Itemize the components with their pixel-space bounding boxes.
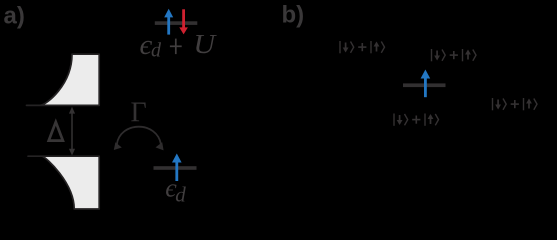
red down spin arrow on upper level xyxy=(179,9,188,34)
svg-text:Γ: Γ xyxy=(131,98,147,129)
blue up spin arrow in (b) xyxy=(421,70,431,98)
Delta label xyxy=(49,122,63,141)
BCS DOS upper band (white) xyxy=(27,54,100,105)
state label bottom xyxy=(394,114,439,126)
svg-text:a): a) xyxy=(4,3,25,30)
label eps_d lower xyxy=(165,173,186,206)
label eps_d + U xyxy=(140,29,218,62)
gap arrow (double-headed vertical) xyxy=(69,107,75,156)
state label top-left xyxy=(340,41,385,53)
center level line in (b) xyxy=(403,83,446,87)
svg-text:U: U xyxy=(193,30,217,59)
BCS DOS lower band (white) xyxy=(28,156,99,209)
svg-text:b): b) xyxy=(282,2,305,29)
state label top-right xyxy=(432,49,477,61)
plus sign of eps_d + U xyxy=(170,39,182,55)
hybridization arc arrow xyxy=(114,127,164,151)
state label right xyxy=(493,98,538,110)
blue up spin arrow on upper level xyxy=(164,9,173,35)
lower dot level line (eps_d) xyxy=(154,166,197,170)
svg-text:d: d xyxy=(151,40,162,62)
blue up spin arrow on lower level xyxy=(172,154,182,182)
svg-text:d: d xyxy=(175,183,186,207)
upper dot level line (eps_d + U) xyxy=(155,21,198,25)
